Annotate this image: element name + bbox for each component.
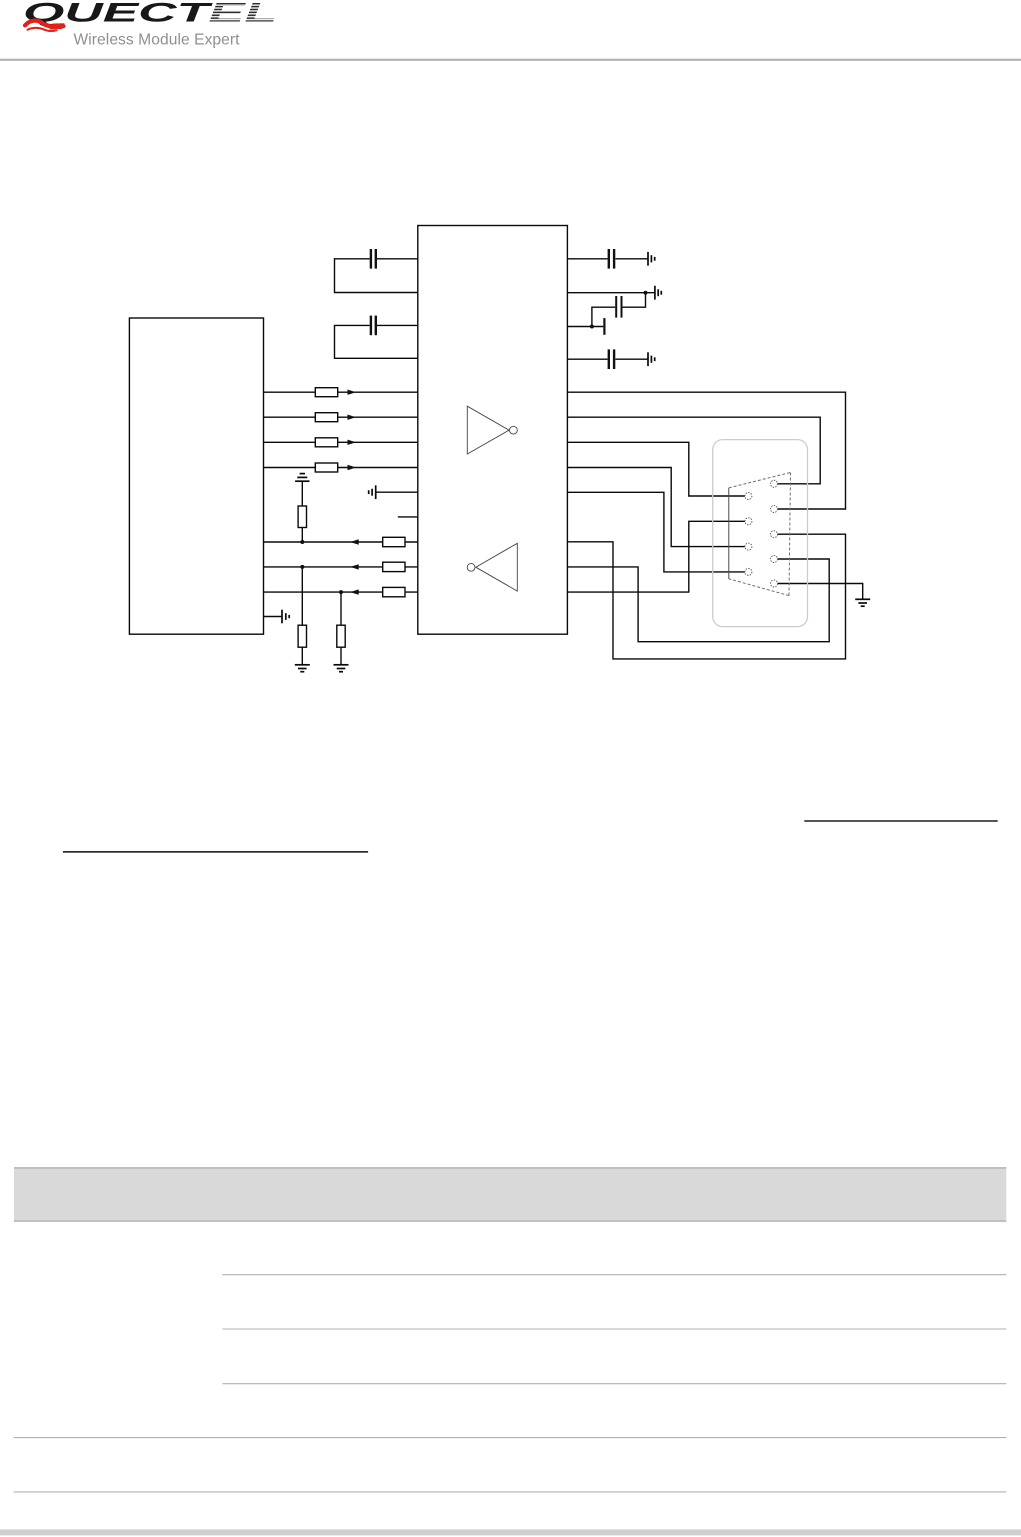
svg-text:QUECT: QUECT	[23, 0, 215, 27]
svg-text:EL: EL	[209, 0, 278, 27]
svg-text:Wireless Module Expert: Wireless Module Expert	[74, 31, 241, 48]
